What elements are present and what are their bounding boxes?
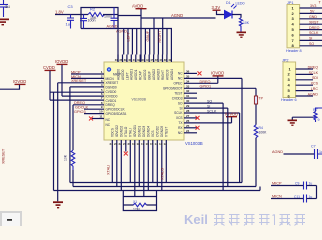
capacitor C9 bbox=[304, 182, 307, 190]
wire IOVDD2 pin bbox=[184, 122, 232, 124]
ground bbox=[0, 19, 9, 26]
svg-text:X1: X1 bbox=[133, 200, 137, 204]
svg-text:36: 36 bbox=[186, 69, 190, 73]
wire CVDD0 down bbox=[53, 92, 55, 190]
svg-text:21: 21 bbox=[123, 142, 127, 146]
svg-text:GPIO1: GPIO1 bbox=[200, 85, 212, 89]
svg-text:TP: TP bbox=[259, 97, 264, 101]
pin stub bbox=[184, 132, 197, 134]
IC right pin names bbox=[163, 72, 184, 135]
right pin numbers bbox=[186, 69, 190, 132]
svg-text:24: 24 bbox=[186, 129, 190, 133]
svg-text:RIGHT: RIGHT bbox=[161, 70, 165, 80]
svg-text:GND: GND bbox=[309, 15, 317, 19]
bottom pin numbers bbox=[110, 142, 168, 146]
svg-text:C9: C9 bbox=[295, 181, 299, 185]
JP1 net labels bbox=[309, 4, 320, 46]
svg-text:40: 40 bbox=[128, 58, 132, 62]
wire bus3 hook bbox=[259, 187, 261, 191]
svg-text:AGND: AGND bbox=[308, 92, 319, 96]
LED D1 bbox=[225, 11, 233, 19]
pin stub X bbox=[184, 127, 197, 129]
IC bottom pin stubs and wires bbox=[112, 140, 166, 197]
wire drops to IC top pins bbox=[118, 16, 167, 63]
svg-text:33: 33 bbox=[186, 84, 190, 88]
svg-text:18: 18 bbox=[137, 142, 141, 146]
svg-text:10K: 10K bbox=[64, 154, 68, 161]
svg-text:19: 19 bbox=[132, 142, 136, 146]
wire XRESET down bbox=[57, 83, 59, 202]
svg-text:43: 43 bbox=[141, 58, 145, 62]
svg-text:47: 47 bbox=[159, 58, 163, 62]
svg-text:SO: SO bbox=[309, 42, 314, 46]
capacitor C0 top-left bbox=[0, 0, 8, 17]
wire IOVDD0 bbox=[62, 95, 104, 97]
svg-text:NC: NC bbox=[178, 77, 183, 81]
UI overlay box bottom-left bbox=[0, 211, 22, 226]
wire SO bbox=[184, 102, 223, 104]
wire TP chain bbox=[255, 88, 257, 96]
capacitor C5 bbox=[111, 8, 118, 29]
svg-text:XDCS: XDCS bbox=[111, 128, 115, 137]
wire MICN bbox=[71, 77, 104, 79]
svg-text:NC: NC bbox=[178, 72, 183, 76]
bus wires bottom bbox=[54, 183, 261, 191]
IC bottom pin names (rotated) bbox=[111, 125, 169, 137]
svg-text:RCAP: RCAP bbox=[139, 71, 143, 80]
left pin numbers bbox=[99, 70, 103, 119]
pin 11 stub bbox=[92, 118, 104, 120]
svg-text:DGND4: DGND4 bbox=[147, 126, 151, 137]
svg-text:1u: 1u bbox=[309, 195, 313, 199]
svg-text:NC: NC bbox=[178, 131, 183, 135]
svg-text:32: 32 bbox=[186, 89, 190, 93]
svg-text:MICN: MICN bbox=[106, 77, 115, 81]
svg-text:AGND1: AGND1 bbox=[130, 69, 134, 80]
svg-text:DGND0: DGND0 bbox=[106, 86, 117, 90]
svg-text:LRC: LRC bbox=[311, 87, 319, 91]
svg-text:IOVDD: IOVDD bbox=[225, 112, 238, 117]
svg-text:Header 8: Header 8 bbox=[286, 49, 302, 53]
IC right pin wires bbox=[184, 73, 256, 132]
svg-text:AVDD3: AVDD3 bbox=[165, 69, 169, 80]
svg-text:15: 15 bbox=[150, 142, 154, 146]
svg-text:DREQ: DREQ bbox=[309, 26, 320, 30]
test point TP bbox=[254, 96, 257, 104]
svg-text:Header 6: Header 6 bbox=[281, 98, 297, 102]
svg-text:AGND4: AGND4 bbox=[170, 69, 174, 80]
svg-text:AVDD0: AVDD0 bbox=[121, 69, 125, 80]
svg-text:XTEST: XTEST bbox=[165, 127, 169, 137]
svg-text:5V: 5V bbox=[310, 10, 315, 14]
IC top pin stubs + numbers bbox=[118, 55, 171, 63]
wire DREQ right bbox=[184, 87, 256, 89]
svg-text:CVDD: CVDD bbox=[43, 65, 55, 70]
svg-text:11: 11 bbox=[99, 115, 103, 119]
svg-text:SDI: SDI bbox=[312, 76, 318, 80]
wire SI bbox=[184, 107, 228, 109]
svg-text:23: 23 bbox=[114, 142, 118, 146]
svg-text:27: 27 bbox=[186, 114, 190, 118]
svg-text:IOVDD: IOVDD bbox=[13, 79, 26, 84]
svg-text:XTALO: XTALO bbox=[124, 126, 128, 137]
wire DREQ bbox=[73, 104, 104, 106]
svg-text:RIGHT: RIGHT bbox=[158, 30, 162, 42]
svg-text:AGND: AGND bbox=[107, 25, 118, 29]
wire SCLK down bbox=[239, 113, 241, 183]
svg-text:XCS: XCS bbox=[311, 82, 319, 86]
svg-text:GBUF: GBUF bbox=[146, 30, 150, 41]
svg-text:AGND: AGND bbox=[171, 13, 183, 18]
JP1 wires bbox=[300, 8, 322, 46]
IC top pin names (rotated) bbox=[116, 69, 173, 80]
svg-text:XRESET: XRESET bbox=[106, 81, 119, 85]
JP2 net labels bbox=[308, 65, 319, 96]
watermark bbox=[184, 212, 305, 227]
svg-text:31: 31 bbox=[186, 94, 190, 98]
wire pin35 long bbox=[184, 77, 242, 79]
svg-text:1u: 1u bbox=[66, 22, 70, 27]
JP2 wires bbox=[296, 69, 313, 96]
pin stub bbox=[184, 97, 197, 99]
svg-text:C3: C3 bbox=[68, 4, 74, 9]
svg-text:IOVDD: IOVDD bbox=[55, 59, 68, 64]
svg-text:CVDD3: CVDD3 bbox=[172, 96, 183, 100]
wire AGND rail bbox=[141, 17, 216, 19]
svg-text:R4: R4 bbox=[259, 126, 263, 130]
svg-text:10K: 10K bbox=[243, 21, 250, 25]
svg-text:XRESET: XRESET bbox=[2, 148, 6, 164]
no-connect X right pin36 bbox=[198, 71, 202, 75]
svg-text:SI: SI bbox=[207, 104, 210, 108]
svg-text:XRESET: XRESET bbox=[71, 79, 87, 83]
svg-text:SI: SI bbox=[179, 106, 182, 110]
no-connect X bottom bbox=[124, 152, 128, 156]
wire GPIO3 bbox=[84, 113, 104, 115]
wire join caps bbox=[316, 186, 318, 199]
wire GPIO2 bbox=[84, 108, 104, 110]
svg-text:GBUF: GBUF bbox=[148, 71, 152, 80]
svg-text:MICP: MICP bbox=[71, 70, 81, 74]
capacitor C4 bbox=[80, 15, 87, 29]
svg-text:16: 16 bbox=[146, 142, 150, 146]
svg-text:1u: 1u bbox=[309, 181, 313, 185]
wire verticals to bottom bus bbox=[223, 78, 260, 190]
IC left pin names bbox=[106, 72, 128, 127]
wire bbox=[103, 14, 118, 16]
svg-text:34: 34 bbox=[186, 79, 190, 83]
svg-text:GPIO3: GPIO3 bbox=[74, 110, 86, 114]
wire CVDD0 bbox=[50, 91, 104, 93]
wire CVDD bbox=[49, 71, 51, 100]
IC left pin wires bbox=[50, 74, 104, 119]
svg-text:LEFT: LEFT bbox=[126, 32, 130, 42]
svg-text:9: 9 bbox=[318, 118, 320, 122]
svg-text:39: 39 bbox=[124, 58, 128, 62]
svg-text:AGND0: AGND0 bbox=[116, 69, 120, 80]
wire lower rail bbox=[118, 29, 171, 55]
svg-text:C7: C7 bbox=[311, 145, 316, 149]
svg-text:R7: R7 bbox=[313, 108, 318, 112]
wire CVDD1 bbox=[50, 99, 104, 101]
wire SI down bbox=[227, 108, 229, 186]
pin-1 marker dot bbox=[107, 67, 111, 71]
wire SO down bbox=[222, 103, 224, 190]
svg-text:48: 48 bbox=[164, 58, 168, 62]
svg-text:XTALI: XTALI bbox=[107, 165, 111, 175]
svg-text:100n: 100n bbox=[88, 19, 96, 23]
svg-text:28: 28 bbox=[186, 109, 190, 113]
no-connect X pin11 bbox=[89, 117, 93, 121]
capacitor C11 bbox=[304, 195, 307, 203]
pin36 stub bbox=[184, 72, 197, 74]
svg-text:3V3: 3V3 bbox=[310, 4, 316, 8]
svg-text:38: 38 bbox=[119, 58, 123, 62]
wire XRESET bbox=[58, 82, 104, 84]
svg-text:XTALO: XTALO bbox=[161, 168, 165, 180]
svg-text:DREQ: DREQ bbox=[106, 103, 116, 107]
resistor R2 bbox=[88, 13, 105, 17]
svg-text:XRST: XRST bbox=[309, 20, 319, 24]
svg-text:25: 25 bbox=[186, 124, 190, 128]
svg-text:CVDD0: CVDD0 bbox=[106, 90, 117, 94]
svg-text:DGND3: DGND3 bbox=[142, 126, 146, 137]
svg-text:SO: SO bbox=[207, 99, 212, 103]
svg-text:XCS: XCS bbox=[176, 116, 183, 120]
svg-text:Keil: Keil bbox=[184, 212, 208, 226]
svg-text:GPIO2/DCLK: GPIO2/DCLK bbox=[106, 108, 126, 112]
capacitor C3 bbox=[67, 15, 74, 29]
resistor R5 bbox=[239, 18, 242, 32]
svg-text:GPIO0/BOOT: GPIO0/BOOT bbox=[163, 87, 183, 91]
svg-text:XCS: XCS bbox=[151, 130, 155, 137]
no-connect X right pin25 bbox=[196, 126, 200, 130]
wire DGND0 down bbox=[69, 87, 71, 183]
wire bus3 bbox=[54, 190, 261, 192]
svg-text:1u: 1u bbox=[5, 4, 11, 9]
svg-text:XTALI: XTALI bbox=[129, 128, 133, 137]
svg-text:26: 26 bbox=[186, 119, 190, 123]
svg-text:AVDD1: AVDD1 bbox=[134, 69, 138, 80]
svg-text:29: 29 bbox=[186, 104, 190, 108]
svg-text:IOVDD1: IOVDD1 bbox=[133, 125, 137, 137]
wire AVDD rail bbox=[118, 15, 141, 17]
svg-text:SCLK: SCLK bbox=[309, 71, 319, 75]
svg-text:20: 20 bbox=[128, 142, 132, 146]
svg-text:SCLK: SCLK bbox=[309, 31, 319, 35]
resistor R4 100K bbox=[254, 125, 258, 138]
wire bus2 bbox=[73, 186, 256, 188]
wire DGND0 bbox=[70, 86, 104, 88]
svg-text:AGND3: AGND3 bbox=[157, 69, 161, 80]
svg-text:SCLK: SCLK bbox=[174, 111, 183, 115]
resistor R3 100K bbox=[71, 150, 75, 170]
svg-text:DGND5: DGND5 bbox=[160, 126, 164, 137]
svg-text:DREQ: DREQ bbox=[308, 65, 319, 69]
wire bbox=[232, 15, 241, 18]
svg-text:AVDD: AVDD bbox=[132, 4, 143, 9]
svg-text:TEST: TEST bbox=[174, 91, 182, 95]
svg-text:CVDD1: CVDD1 bbox=[106, 99, 117, 103]
ground bbox=[53, 201, 63, 208]
svg-text:DREQ: DREQ bbox=[74, 101, 85, 105]
svg-text:12: 12 bbox=[164, 142, 168, 146]
svg-text:12M: 12M bbox=[133, 208, 140, 212]
svg-text:37: 37 bbox=[115, 58, 119, 62]
svg-text:NC: NC bbox=[106, 123, 111, 127]
crystal X1 bbox=[133, 203, 147, 207]
resistor edge R6 bbox=[313, 108, 322, 122]
crystal X1 loop bbox=[123, 191, 156, 211]
svg-text:100K: 100K bbox=[259, 131, 268, 135]
svg-text:D1: D1 bbox=[226, 1, 231, 5]
wire bus1 bbox=[70, 182, 242, 184]
svg-text:100n: 100n bbox=[104, 14, 112, 18]
svg-text:30: 30 bbox=[186, 99, 190, 103]
svg-text:14: 14 bbox=[155, 142, 159, 146]
svg-text:NC: NC bbox=[106, 118, 111, 122]
svg-text:GDCLK: GDCLK bbox=[75, 106, 89, 110]
svg-text:IOVDD2: IOVDD2 bbox=[115, 125, 119, 137]
svg-text:IOVDD0: IOVDD0 bbox=[106, 94, 118, 98]
svg-text:OPEC: OPEC bbox=[173, 82, 183, 86]
capacitor edge bbox=[315, 149, 322, 159]
wire SCLK bbox=[184, 112, 240, 114]
pin stub X bbox=[184, 117, 197, 119]
svg-text:41: 41 bbox=[133, 58, 137, 62]
svg-text:VS1003B: VS1003B bbox=[132, 97, 147, 101]
svg-text:AVDD2: AVDD2 bbox=[143, 69, 147, 80]
wire resistor to bus bbox=[72, 170, 74, 187]
svg-text:VS1003B: VS1003B bbox=[185, 141, 203, 146]
wire IOVDD pin bbox=[184, 82, 218, 84]
svg-text:LEFT: LEFT bbox=[125, 72, 129, 80]
svg-text:49: 49 bbox=[168, 58, 172, 62]
svg-text:1.8V: 1.8V bbox=[55, 10, 64, 15]
svg-text:IOVDD: IOVDD bbox=[211, 71, 224, 76]
svg-text:DREQ: DREQ bbox=[200, 80, 211, 84]
svg-text:AGND: AGND bbox=[272, 150, 283, 154]
wire loop bbox=[81, 8, 118, 29]
svg-text:SCLK: SCLK bbox=[207, 109, 217, 113]
svg-text:24: 24 bbox=[110, 142, 114, 146]
svg-text:45: 45 bbox=[150, 58, 154, 62]
svg-text:LED0: LED0 bbox=[236, 2, 245, 6]
wire bbox=[55, 14, 88, 16]
svg-text:MICN: MICN bbox=[71, 75, 81, 79]
svg-text:3.3V: 3.3V bbox=[212, 5, 221, 10]
svg-text:44: 44 bbox=[146, 58, 150, 62]
svg-text:10: 10 bbox=[99, 110, 103, 114]
svg-text:13: 13 bbox=[159, 142, 163, 146]
pin stub bbox=[184, 92, 197, 94]
ground LED bbox=[237, 32, 247, 38]
svg-text:SO: SO bbox=[178, 101, 183, 105]
svg-text:C11: C11 bbox=[294, 195, 300, 199]
svg-text:DGND1: DGND1 bbox=[138, 126, 142, 137]
svg-text:DGND2: DGND2 bbox=[120, 126, 124, 137]
op IC U1 VS1003B body bbox=[104, 62, 184, 140]
svg-text:35: 35 bbox=[186, 74, 190, 78]
svg-text:22: 22 bbox=[119, 142, 123, 146]
svg-text:CVDD2: CVDD2 bbox=[156, 126, 160, 137]
wire IOVDD bbox=[61, 65, 63, 96]
svg-text:GPIO3/SDATA: GPIO3/SDATA bbox=[106, 112, 128, 116]
wire MICP bbox=[71, 73, 104, 75]
no-connect X right pin27 bbox=[196, 116, 200, 120]
svg-text:46: 46 bbox=[155, 58, 159, 62]
ground mid-right bbox=[292, 116, 313, 118]
wire loop down bbox=[241, 78, 243, 182]
svg-text:17: 17 bbox=[141, 142, 145, 146]
svg-text:SI: SI bbox=[309, 37, 312, 41]
svg-text:42: 42 bbox=[137, 58, 141, 62]
wire DREQ down bbox=[72, 105, 74, 150]
svg-text:AGND2: AGND2 bbox=[152, 69, 156, 80]
